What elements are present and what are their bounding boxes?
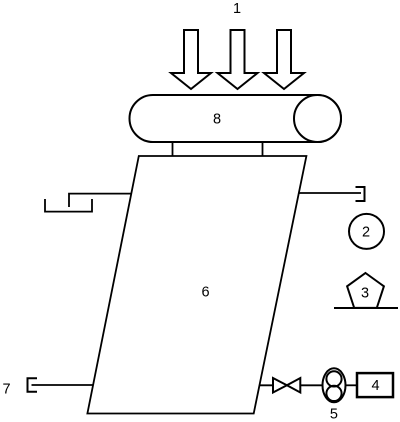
svg-text:7: 7 bbox=[2, 382, 10, 398]
svg-text:2: 2 bbox=[362, 224, 370, 240]
svg-text:1: 1 bbox=[233, 1, 241, 17]
svg-text:4: 4 bbox=[372, 378, 380, 394]
svg-text:8: 8 bbox=[213, 112, 221, 128]
svg-text:6: 6 bbox=[202, 284, 210, 300]
svg-text:3: 3 bbox=[361, 286, 369, 302]
svg-text:5: 5 bbox=[330, 407, 338, 422]
